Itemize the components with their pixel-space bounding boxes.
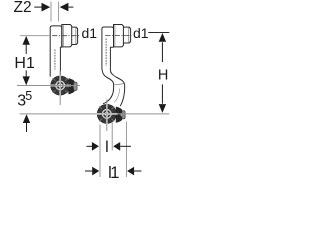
svg-text:d1: d1 — [133, 25, 149, 41]
right pipe with S-bend outline — [102, 48, 125, 107]
inner tube line lower bend — [114, 89, 119, 103]
l1 dimension arrows — [85, 167, 142, 176]
left socket centerline dash-dot — [52, 35, 80, 37]
H1 dimension line and arrows — [23, 36, 30, 85]
left donut vertical centerline — [59, 71, 61, 105]
left press sleeve wing — [68, 78, 77, 94]
right press sleeve wing — [116, 107, 125, 123]
svg-text:d1: d1 — [82, 25, 98, 41]
left press connector end-on donut — [50, 76, 70, 96]
svg-text:1: 1 — [110, 164, 119, 180]
bottom master reference line full width — [20, 113, 170, 115]
right end cap — [123, 27, 130, 43]
svg-text:H: H — [158, 68, 168, 84]
left elbow body outline — [50, 26, 62, 77]
svg-text:Z2: Z2 — [14, 0, 32, 16]
l dimension arrows — [87, 142, 132, 151]
35 dimension arrow — [23, 114, 30, 132]
svg-text:5: 5 — [25, 89, 32, 103]
Z2 right-pointing arrow — [34, 3, 50, 12]
svg-text:H1: H1 — [14, 55, 35, 72]
H1 top reference line — [20, 35, 50, 37]
left pipe marking text — [54, 50, 56, 70]
joint line at S bottom — [114, 84, 125, 85]
svg-text:l: l — [105, 139, 109, 156]
right socket centerline dash-dot — [105, 35, 131, 37]
right union nut — [114, 25, 124, 47]
H1 bottom reference line and left donut horizontal centerline — [17, 85, 80, 87]
left end cap — [72, 27, 78, 44]
left union nut — [62, 25, 72, 47]
H dimension terminator line, line and arrows — [148, 33, 169, 113]
left crosshair white casing — [50, 75, 71, 97]
inner bend arc upper S — [110, 72, 116, 77]
right donut vertical centerline — [106, 100, 108, 132]
right elbow body outline — [102, 27, 114, 48]
right press connector end-on donut — [97, 104, 117, 124]
right pipe marking text — [105, 39, 107, 67]
bottom extension lines — [100, 122, 126, 178]
Z2 left-pointing arrow — [60, 3, 74, 12]
right crosshair white casing — [96, 103, 117, 125]
Z2 extension lines — [51, 2, 59, 22]
